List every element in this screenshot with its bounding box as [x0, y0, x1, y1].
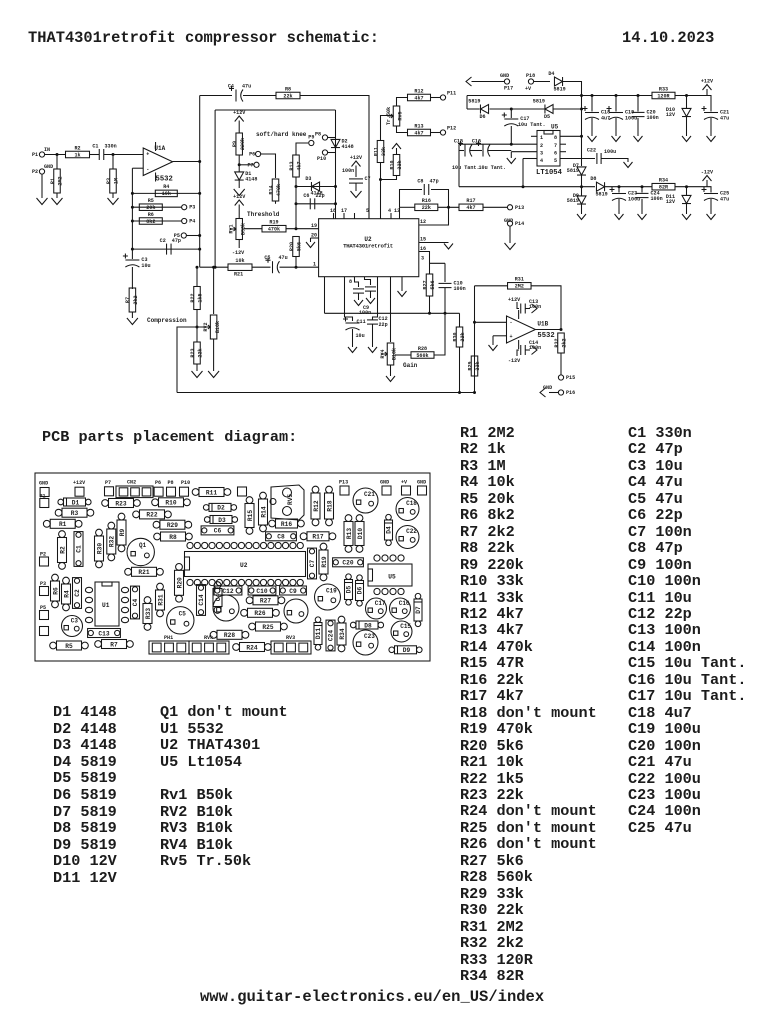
svg-text:33k: 33k — [381, 147, 387, 156]
wire U2 pin17 stub — [343, 213, 345, 219]
pcb resistor R16 — [269, 519, 305, 528]
pcb resistor R30 — [95, 529, 104, 568]
svg-text:C24: C24 — [328, 630, 335, 641]
wire P5 to net — [186, 235, 199, 237]
svg-text:PH1: PH1 — [164, 635, 173, 641]
wire R14 bottom — [275, 201, 277, 204]
svg-text:5: 5 — [366, 208, 369, 214]
pad P7 — [248, 162, 260, 168]
svg-text:R13: R13 — [346, 528, 353, 539]
svg-text:R16: R16 — [422, 198, 431, 204]
svg-text:47u: 47u — [242, 84, 251, 90]
wire R5 leads — [132, 206, 181, 208]
svg-text:-12V: -12V — [508, 358, 521, 364]
svg-text:7: 7 — [554, 143, 557, 149]
svg-text:P7: P7 — [248, 162, 254, 168]
svg-text:10u Tant.: 10u Tant. — [452, 165, 480, 171]
svg-text:5819: 5819 — [596, 192, 608, 198]
wire pin20 arrow stem — [310, 238, 312, 242]
wire D9 gnd — [581, 204, 583, 214]
wire P17 row — [472, 81, 505, 83]
pcb connector PH2 — [271, 635, 311, 654]
svg-text:R26: R26 — [254, 610, 265, 617]
wire RV4 top — [390, 277, 392, 342]
pcb resistor R2 — [58, 531, 67, 570]
capacitor C15 — [454, 139, 472, 157]
svg-text:R24: R24 — [246, 644, 257, 651]
junction D5 right — [580, 108, 583, 111]
resistor R14 — [268, 179, 282, 201]
pcb diode D3 — [204, 516, 237, 524]
wire C9a path — [355, 277, 359, 287]
svg-text:8: 8 — [349, 279, 352, 285]
pcb capacitor C15c — [391, 621, 412, 642]
wire RV4 wiper to R28 — [395, 354, 411, 356]
wire C4 to R8 — [243, 95, 276, 97]
svg-text:5819: 5819 — [567, 198, 579, 204]
pcb capacitor C9m — [280, 586, 307, 595]
ground arrow P17 — [466, 77, 472, 86]
svg-text:D4: D4 — [386, 526, 393, 534]
svg-text:+: + — [146, 152, 149, 158]
wire D6 row — [467, 108, 480, 110]
ground R3 — [108, 198, 119, 205]
svg-text:100n: 100n — [454, 286, 466, 292]
svg-text:D5: D5 — [544, 114, 550, 120]
wire fb column — [474, 286, 476, 355]
svg-text:22k: 22k — [422, 205, 431, 211]
ground pin20 — [306, 242, 315, 248]
svg-text:R6: R6 — [52, 587, 59, 595]
pcb resistor R33 — [143, 597, 152, 631]
ground U5 pin3 — [507, 158, 516, 164]
pcb resistor R10 — [152, 498, 191, 507]
ground C22 — [624, 162, 633, 168]
resistor R18/R27 — [422, 274, 436, 296]
wire D10 gnd — [686, 117, 688, 137]
wire to plus input — [475, 321, 507, 323]
potentiometer RV2 — [203, 315, 221, 339]
svg-text:P3: P3 — [189, 205, 195, 211]
svg-text:1k5: 1k5 — [198, 293, 204, 302]
wire bottom net — [177, 392, 475, 394]
capacitor C10 — [439, 281, 466, 293]
wire C13 stem — [517, 302, 519, 309]
capacitor C1 — [92, 144, 116, 161]
svg-text:C15: C15 — [454, 139, 463, 145]
wire R10 to jog — [381, 176, 397, 180]
junction +rail — [580, 94, 583, 97]
ground C20 — [634, 136, 643, 142]
resistor R31 — [508, 277, 532, 290]
svg-text:P17: P17 — [504, 86, 513, 92]
svg-text:R19: R19 — [321, 556, 328, 567]
capacitor C11 — [343, 317, 360, 331]
junction opamp plus — [473, 321, 476, 324]
pcb pad P7 top — [105, 487, 114, 496]
resistor R9 — [232, 133, 246, 155]
svg-text:22k: 22k — [460, 332, 466, 341]
svg-text:100n: 100n — [359, 310, 371, 316]
pcb resistor R29 — [153, 520, 192, 529]
wire pin7 gnd stub — [401, 277, 403, 291]
pad P12 — [440, 126, 456, 136]
svg-text:C20: C20 — [342, 560, 353, 567]
svg-text:P13: P13 — [339, 480, 348, 486]
svg-text:13: 13 — [394, 208, 400, 214]
wire C17 top — [510, 109, 512, 118]
svg-text:R27: R27 — [422, 280, 428, 289]
svg-text:R5: R5 — [148, 198, 154, 204]
svg-text:6: 6 — [554, 151, 557, 157]
pcb diode D4v — [385, 514, 393, 545]
svg-text:+: + — [510, 334, 513, 340]
ground pin15 — [444, 244, 453, 250]
wire +12V stem — [706, 89, 708, 96]
junction C24 — [641, 185, 644, 188]
wire C16 out — [488, 150, 511, 152]
wire C19 top — [615, 96, 617, 112]
resistor R29 — [467, 356, 481, 376]
resistor R10 — [389, 155, 403, 176]
supply -12V out — [701, 170, 714, 182]
wire C6 leads — [296, 203, 336, 205]
svg-text:R14: R14 — [268, 185, 274, 194]
pcb resistor R3 — [55, 508, 94, 517]
svg-text:R20: R20 — [176, 577, 183, 588]
wire U5 pin2 — [459, 143, 537, 145]
svg-text:P5: P5 — [40, 605, 46, 611]
pcb resistor R5 — [50, 641, 89, 650]
svg-text:C11: C11 — [357, 319, 366, 325]
junction R20 top — [295, 227, 298, 230]
svg-text:R14: R14 — [260, 506, 267, 517]
svg-text:5819: 5819 — [567, 168, 579, 174]
svg-text:10u: 10u — [356, 333, 365, 339]
wire C2 leads — [132, 248, 199, 250]
pcb pad CN-GND — [40, 488, 49, 497]
resistor R3 — [106, 169, 120, 193]
svg-text:16: 16 — [420, 246, 426, 252]
wire R31 row — [475, 285, 508, 287]
wire RV4 bottom — [390, 365, 392, 376]
svg-text:8: 8 — [554, 135, 557, 141]
supply +12V RV1 — [233, 194, 246, 206]
ground R1 — [52, 198, 63, 205]
wire R9 top — [238, 121, 240, 134]
pcb transistor Q2 — [213, 595, 239, 621]
svg-text:P2: P2 — [32, 169, 38, 175]
wire RV1 wiper to R19 — [244, 228, 262, 230]
svg-text:R6: R6 — [148, 212, 154, 218]
wire P14 arrow stem — [509, 226, 511, 243]
pad P13 — [507, 205, 524, 211]
svg-text:R33: R33 — [659, 86, 668, 92]
wire P10 stub — [328, 152, 336, 154]
pcb resistor R28 — [210, 630, 249, 639]
svg-text:D2: D2 — [217, 505, 225, 512]
svg-text:IN: IN — [44, 147, 50, 153]
svg-text:19: 19 — [311, 223, 317, 229]
resistor R32 — [554, 333, 568, 353]
junction out — [198, 160, 201, 163]
pad P15 — [558, 375, 575, 381]
diode D1 — [235, 171, 258, 183]
resistor R33 — [652, 86, 675, 99]
ground P2 — [37, 198, 48, 205]
svg-text:D5: D5 — [346, 586, 353, 594]
svg-text:2k2: 2k2 — [562, 338, 568, 347]
wire R34 to -12V — [675, 186, 707, 188]
svg-text:C1: C1 — [76, 545, 83, 553]
pcb resistor R7 — [95, 640, 134, 649]
junction C17 pin2 — [510, 143, 513, 146]
svg-text:R23: R23 — [115, 500, 126, 507]
pcb capacitor C5 — [167, 607, 194, 634]
capacitor C19 — [607, 106, 638, 122]
wire C3 to R7 — [131, 267, 133, 289]
junction R10 jog — [379, 178, 382, 181]
capacitor C16 — [472, 139, 490, 157]
svg-text:R8: R8 — [285, 86, 291, 92]
junction P1/R1 — [56, 153, 59, 156]
svg-text:R18: R18 — [326, 500, 333, 511]
wire R22 to R23 — [196, 310, 198, 343]
wire inner top — [215, 109, 335, 111]
pad P17 — [504, 79, 513, 92]
pcb pad top-right edge — [238, 487, 247, 496]
svg-text:GND: GND — [39, 481, 48, 487]
svg-text:P1: P1 — [32, 152, 38, 158]
svg-text:C21: C21 — [364, 491, 375, 498]
svg-text:R15: R15 — [247, 510, 254, 521]
svg-text:C12: C12 — [222, 588, 233, 595]
wire R10 top — [396, 148, 398, 154]
svg-text:+V: +V — [525, 86, 532, 92]
resistor R21 — [228, 258, 252, 270]
pcb capacitor C20 — [333, 558, 364, 567]
pad P16 — [558, 390, 575, 396]
svg-text:R3: R3 — [71, 510, 79, 517]
junction C17 — [510, 108, 513, 111]
resistor R13 4k7 — [408, 123, 431, 136]
diode D6 — [468, 99, 488, 121]
pcb pad GND tr1 — [382, 486, 391, 495]
svg-text:C4: C4 — [132, 599, 139, 607]
svg-text:R22: R22 — [190, 293, 196, 302]
supply arrow R10 — [392, 144, 401, 150]
svg-text:Threshold: Threshold — [247, 211, 280, 218]
wire U5 pin8 — [560, 135, 582, 137]
svg-text:R29: R29 — [467, 361, 473, 370]
svg-text:100n: 100n — [342, 168, 354, 174]
junction P7 — [238, 163, 241, 166]
ground arrow P16 — [540, 388, 546, 397]
svg-text:R11: R11 — [206, 489, 217, 496]
svg-text:4148: 4148 — [245, 177, 257, 183]
capacitor C2 — [160, 238, 181, 255]
wire R23 to ground — [196, 364, 198, 371]
wire -12V rail — [459, 186, 595, 188]
svg-text:8k2: 8k2 — [146, 219, 155, 225]
pcb resistor R11 — [192, 488, 231, 497]
ground C23 — [615, 214, 624, 220]
wire C18 gnd — [591, 118, 593, 136]
svg-text:R17: R17 — [312, 534, 323, 541]
svg-text:10k: 10k — [235, 258, 244, 264]
pcb diode D10v — [355, 515, 364, 553]
wire R8 to U2 pin5 col — [300, 96, 369, 220]
ground C12 — [368, 347, 377, 353]
pcb transistor Q1 — [127, 538, 154, 565]
pcb resistor R20 — [175, 564, 184, 603]
svg-text:RVk: RVk — [204, 635, 213, 641]
svg-text:-: - — [146, 167, 149, 173]
pad P3 — [182, 205, 196, 211]
wire R19 to U2 pin19 — [286, 228, 319, 230]
wire RV2 wiper — [177, 327, 204, 393]
svg-text:4k7: 4k7 — [466, 205, 475, 211]
svg-text:4: 4 — [388, 208, 391, 214]
pcb diode D5v — [345, 574, 353, 605]
svg-text:D8: D8 — [364, 622, 372, 629]
svg-text:R25: R25 — [262, 624, 273, 631]
ground C21 — [707, 136, 716, 142]
wire C12 gnd — [372, 324, 374, 347]
pcb transistor Q3 — [284, 599, 308, 623]
wire C19 gnd — [615, 118, 617, 136]
svg-text:R33: R33 — [145, 608, 152, 619]
wire R21 to C5 — [252, 266, 271, 268]
wire R20 bottom — [295, 257, 297, 268]
svg-text:+12V: +12V — [233, 194, 246, 200]
pcb capacitor C6 — [201, 526, 234, 535]
wire R16 to R17 — [438, 206, 459, 208]
svg-text:R30: R30 — [96, 543, 103, 554]
svg-text:120R: 120R — [657, 93, 670, 99]
ground RV2 — [208, 371, 219, 378]
svg-text:-12V: -12V — [701, 170, 714, 176]
ground C7 — [351, 191, 362, 198]
svg-text:R16: R16 — [281, 521, 292, 528]
pad P4 — [182, 218, 196, 224]
pcb pad P6 top — [154, 487, 163, 496]
diode D7 — [577, 167, 586, 175]
wire C16 link — [470, 150, 482, 152]
diode D11 — [682, 195, 691, 203]
wire C7 bottom — [355, 183, 357, 191]
wire P8 stub — [328, 137, 336, 139]
svg-text:10k: 10k — [162, 191, 171, 197]
svg-text:220k: 220k — [240, 138, 246, 150]
pad P9 — [308, 135, 314, 146]
capacitor C9 — [365, 287, 376, 291]
junction U5 pin8 — [580, 135, 583, 138]
capacitor C7 — [349, 176, 371, 183]
date text — [622, 29, 714, 47]
ground pin7 — [398, 291, 407, 297]
svg-text:P10: P10 — [317, 156, 326, 162]
svg-text:C6: C6 — [303, 193, 309, 199]
resistor R8 — [276, 86, 300, 99]
pcb diode D2 — [203, 503, 236, 511]
wire R7 to ground — [131, 312, 133, 318]
wire C11 gnd — [352, 329, 354, 347]
wire R4 leads — [132, 192, 199, 194]
capacitor C4 — [228, 84, 251, 102]
svg-text:C7: C7 — [365, 176, 371, 182]
wire pin9 stub — [324, 277, 326, 314]
junction C10 row — [444, 312, 447, 315]
wire C15 leads — [459, 150, 464, 152]
svg-text:Q1: Q1 — [139, 542, 147, 549]
svg-text:33k: 33k — [475, 361, 481, 370]
wire U1A inverting input — [132, 167, 143, 169]
wire U2 pin13 stub — [399, 207, 401, 218]
svg-text:+V: +V — [401, 480, 408, 486]
pcb diode D9h — [389, 646, 422, 654]
pcb capacitor C13 — [88, 629, 121, 638]
svg-text:-12V: -12V — [232, 250, 245, 256]
svg-text:+12V: +12V — [508, 297, 521, 303]
wire C14 stem — [517, 350, 519, 356]
svg-text:5819: 5819 — [554, 87, 566, 93]
svg-text:2k2: 2k2 — [133, 295, 139, 304]
pcb capacitor C24v — [326, 620, 335, 651]
wire C1 to opamp — [104, 154, 143, 156]
svg-text:P8: P8 — [168, 480, 174, 486]
svg-text:12: 12 — [420, 219, 426, 225]
svg-text:Compression: Compression — [147, 317, 187, 324]
pcb pad P2 — [40, 557, 49, 566]
svg-text:R5: R5 — [65, 643, 73, 650]
resistor R11 — [373, 141, 387, 163]
wire R13h to pad — [431, 132, 441, 134]
svg-text:C16: C16 — [399, 600, 410, 607]
parts list C column — [628, 425, 746, 836]
wire C23 gnd — [618, 199, 620, 214]
text PCB parts placement diagram — [42, 428, 297, 446]
ic U2 THAT4301 — [319, 219, 419, 277]
wire P6 to R14 — [261, 154, 276, 178]
pcb capacitor C23c — [353, 630, 378, 655]
svg-text:C2: C2 — [74, 589, 81, 597]
pcb capacitor C2 — [73, 578, 82, 609]
svg-text:+12V: +12V — [701, 79, 714, 85]
svg-text:20k: 20k — [146, 205, 155, 211]
wire C18 top — [591, 96, 593, 112]
ic U5 LT1054 — [536, 124, 563, 178]
pcb resistor R22 — [133, 510, 172, 519]
ground D10 — [682, 136, 691, 142]
junction RV2 — [212, 266, 215, 269]
svg-text:U1A: U1A — [154, 145, 165, 152]
junction R22 — [196, 266, 199, 269]
junction C2 right — [198, 248, 201, 251]
wire C10 bottom — [444, 288, 446, 313]
wire pin2 drop — [458, 144, 460, 187]
wire D1 to ground — [238, 180, 240, 188]
svg-text:20: 20 — [311, 233, 317, 239]
op-amp U1A — [143, 142, 173, 184]
wire R1 bottom — [56, 193, 58, 198]
svg-text:560k: 560k — [416, 353, 428, 359]
svg-text:P11: P11 — [447, 91, 456, 97]
wire output — [535, 329, 561, 331]
capacitor C17 — [502, 113, 530, 127]
svg-text:15: 15 — [420, 237, 426, 243]
wire RV5 wiper to R11 — [381, 116, 393, 141]
